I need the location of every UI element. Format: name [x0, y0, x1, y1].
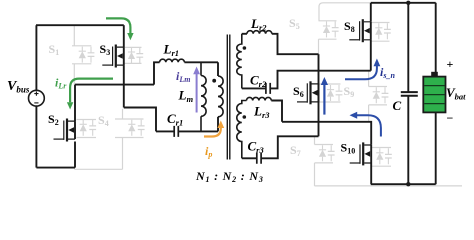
wire: winding2 bottom to Cr3: [242, 157, 257, 159]
svg-text:Vbat: Vbat: [446, 85, 466, 102]
S1 cell drop from top rail: [73, 25, 75, 46]
S1 cell drop to midpoint: [73, 64, 75, 85]
svg-text:is_n: is_n: [380, 65, 395, 80]
capacitor Cr1: [174, 126, 178, 137]
wire: output cap top lead: [407, 3, 409, 92]
wire: secondary bottom rail: [371, 183, 436, 185]
S1 cell top wire: [72, 45, 91, 47]
wire: battery top lead: [435, 3, 437, 72]
svg-text:Lm: Lm: [178, 88, 194, 105]
S8 cell (gray diode+cap) top wire: [371, 22, 390, 24]
S4 body diode: [128, 120, 135, 136]
transformer core bars: [227, 35, 230, 160]
transistor S9 (gray): [360, 85, 362, 87]
transistor S4 (gray): [114, 117, 116, 119]
S9 cell top wire: [369, 86, 387, 88]
wire: left rail lower: [35, 106, 37, 168]
svg-text:N1 : N2 : N3: N1 : N2 : N3: [195, 169, 264, 184]
svg-text:Lr2: Lr2: [250, 16, 267, 33]
wire: winding1 top to Lr2: [242, 33, 247, 35]
wire: winding1 bottom to Cr2: [242, 87, 266, 89]
S9 snubber capacitor: [382, 87, 389, 103]
wire: battery bottom lead: [435, 112, 437, 184]
wire: primary top rail: [36, 24, 124, 26]
S4 snubber capacitor: [138, 120, 145, 136]
S3 body diode: [128, 47, 135, 63]
svg-text:C: C: [393, 98, 402, 113]
capacitor Cr3: [257, 153, 261, 164]
svg-text:iLr: iLr: [55, 76, 67, 91]
transistor S3: [102, 45, 124, 68]
S4 cell top drop: [122, 109, 124, 119]
transistor S10: [350, 142, 372, 165]
transformer primary top lead: [217, 62, 219, 76]
S7 cell top wire: [315, 144, 334, 146]
S8 snubber capacitor: [384, 23, 391, 39]
inductor Lr2: [247, 31, 272, 34]
wire: leg B mid to S10 drain: [282, 122, 371, 145]
svg-text:S3: S3: [100, 42, 111, 57]
S3 cell (gray diode+cap) top wire: [124, 46, 142, 48]
wire: leg B midpoint jog: [124, 108, 156, 132]
current arrow i_Lm (purple): [193, 67, 200, 113]
S3 cell bottom wire: [124, 62, 142, 64]
S8 body diode: [375, 23, 382, 39]
wire: Cr3 to S6 source node: [261, 136, 318, 158]
svg-text:Cr3: Cr3: [248, 139, 265, 156]
transformer secondary winding 2: [237, 101, 247, 159]
svg-text:Lr3: Lr3: [253, 104, 270, 121]
S6 cell (gray diode+cap) top wire: [319, 83, 341, 85]
S2 body diode: [80, 120, 87, 136]
wire: corner up to Lr1: [154, 62, 160, 84]
transistor S5 (gray): [310, 19, 312, 21]
svg-text:Lr1: Lr1: [163, 42, 180, 59]
svg-text:−: −: [447, 111, 454, 125]
svg-text:+: +: [447, 57, 454, 71]
wire: Cr2 to S8 source: [270, 71, 371, 89]
current arrow (green, top): [106, 18, 134, 40]
node: secondary 1 dot: [243, 46, 247, 50]
svg-text:S8: S8: [344, 19, 355, 34]
S2 cell bottom wire: [77, 137, 97, 139]
capacitor C: [401, 92, 418, 96]
svg-text:ip: ip: [205, 144, 212, 159]
S2 snubber capacitor: [89, 120, 96, 136]
S10 cell (gray diode+cap) top wire: [371, 147, 391, 149]
transformer primary bottom lead: [217, 117, 219, 132]
S4 cell top wire: [115, 118, 144, 120]
inductor Lm top lead: [200, 62, 202, 75]
inductor Lr1: [160, 59, 185, 62]
S4 cell bottom wire: [115, 137, 144, 139]
svg-text:S4: S4: [98, 113, 109, 128]
svg-text:S9: S9: [344, 84, 355, 99]
wire: Lr2 to node A: [272, 34, 319, 54]
S5 source drop to node: [318, 39, 320, 54]
S4 source drop to gray rail: [122, 138, 124, 170]
wire: S2 drain lead: [74, 85, 76, 122]
gray top rail (secondary): [319, 3, 371, 21]
S10 cell bottom wire: [371, 165, 391, 167]
S1 cell bottom wire: [72, 63, 91, 65]
inductor Lm bottom lead: [200, 116, 202, 131]
S9 cell top drop: [368, 71, 370, 87]
S2 body diode + snubber cell (gray) top wire: [77, 119, 97, 121]
transistor S1 (gray): [63, 44, 65, 46]
battery V_bat: [423, 72, 445, 113]
wire: S6 leg vertical: [318, 54, 320, 136]
transistor S8: [349, 19, 371, 42]
S7 cell top drop: [314, 136, 316, 144]
S9 source drop: [368, 105, 370, 122]
svg-text:Cr1: Cr1: [167, 111, 183, 128]
wire: S8 drain to top rail: [370, 3, 372, 22]
gray bottom rail (primary): [74, 168, 122, 170]
wire: primary bottom rail: [36, 167, 75, 169]
S5 cell bottom wire: [319, 38, 337, 40]
node: secondary 2 dot: [243, 115, 247, 119]
wire: Lr1 to transformer top: [184, 61, 218, 63]
gray bottom rail (secondary): [315, 185, 463, 187]
svg-text:Cr2: Cr2: [250, 73, 267, 90]
source V_bus: [29, 90, 45, 106]
svg-text:S7: S7: [290, 143, 301, 158]
current arrow at S6 (blue): [321, 77, 328, 115]
S1 snubber capacitor: [88, 47, 95, 63]
S9 body diode: [373, 87, 380, 103]
wire: primary bottom (Cr1 right to transformer): [178, 130, 218, 132]
S10 body diode: [376, 148, 383, 164]
gray labels: [49, 16, 355, 158]
wire: secondary top rail: [371, 2, 436, 4]
S6 body diode: [327, 85, 334, 101]
svg-text:S2: S2: [48, 112, 59, 127]
S8 cell bottom wire: [371, 40, 390, 42]
S5 cell top wire: [319, 20, 337, 22]
S1 body diode: [79, 47, 86, 63]
S9 cell bottom wire: [369, 104, 387, 106]
transformer primary winding: [218, 76, 223, 117]
inductor Lr3: [247, 97, 272, 100]
S6 snubber capacitor: [336, 85, 343, 101]
svg-text:Vbus: Vbus: [7, 79, 30, 95]
node: primary dot: [212, 79, 216, 83]
svg-text:S10: S10: [341, 141, 356, 156]
S7 cell bottom wire: [315, 162, 334, 164]
wire: S8 source lead: [370, 40, 372, 71]
node: top rail junction: [406, 1, 410, 5]
current arrow i_p (orange): [204, 121, 224, 137]
current arrow i_Lr (green): [67, 79, 113, 110]
current arrow at S10 (blue): [350, 112, 381, 137]
wire: left rail upper: [35, 25, 37, 90]
transistor S6: [297, 81, 319, 104]
transistor S7 (gray): [306, 143, 308, 145]
wire: S3 source lead down: [123, 65, 125, 107]
transistor S2: [54, 119, 76, 142]
wire: leg A midpoint to tank: [75, 84, 154, 86]
S6 cell bottom wire: [319, 101, 341, 103]
S3 snubber capacitor: [136, 47, 143, 63]
S7 source drop to gray rail: [314, 163, 316, 186]
current arrow i_s_n (blue): [345, 59, 380, 80]
wire: S10 source lead: [370, 163, 372, 184]
transformer secondary winding 1: [237, 34, 242, 89]
wire: output cap bottom lead: [407, 96, 409, 184]
wire: Cr1 left wire: [156, 130, 174, 132]
S5 snubber capacitor: [332, 21, 339, 37]
inductor Lm: [201, 76, 206, 117]
S7 snubber capacitor: [328, 145, 335, 161]
node: bottom rail junction: [406, 182, 410, 186]
svg-text:S6: S6: [293, 84, 304, 99]
wire: S3 drain from rail: [123, 25, 125, 47]
S7 body diode: [319, 145, 326, 161]
capacitor Cr2: [266, 83, 270, 94]
S5 body diode: [323, 21, 330, 37]
wire: S2 source lead: [74, 142, 76, 168]
svg-text:S5: S5: [289, 16, 300, 31]
S10 snubber capacitor: [385, 148, 392, 164]
svg-text:iLm: iLm: [176, 69, 190, 84]
wire: Lr3 to leg B mid: [271, 101, 282, 122]
svg-text:S1: S1: [49, 42, 60, 57]
